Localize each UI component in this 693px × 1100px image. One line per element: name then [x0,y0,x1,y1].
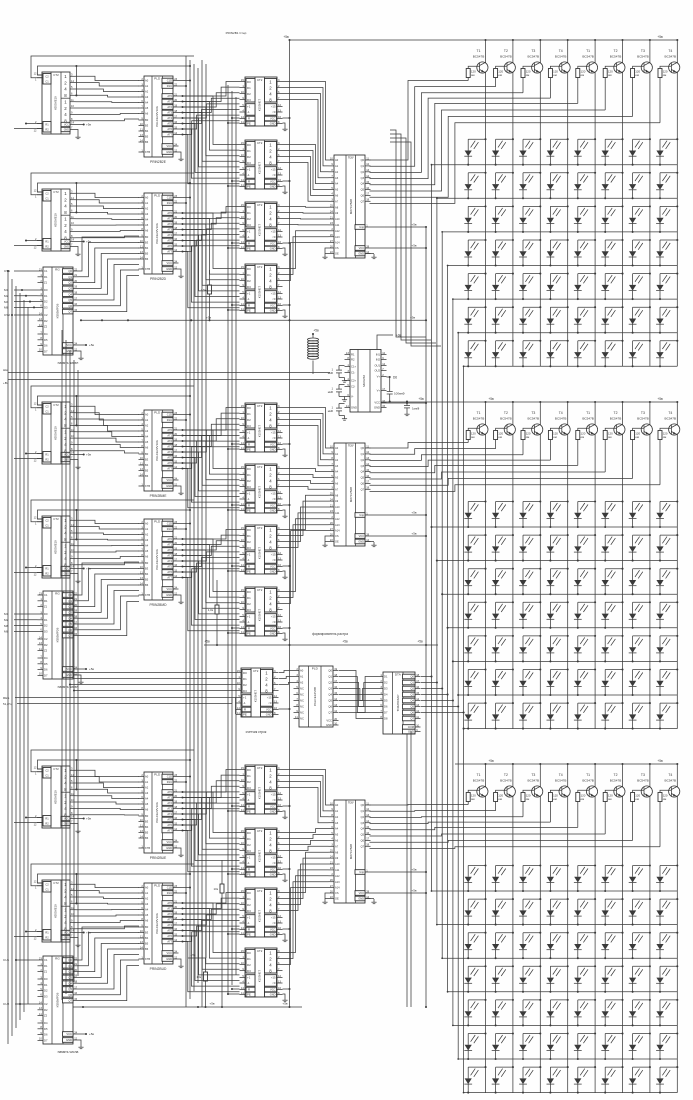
svg-text:A3: A3 [145,902,149,906]
LED D2.2.4 [547,534,569,562]
transistor T3 block 2 (BC547B) [523,411,543,435]
svg-text:A1: A1 [145,84,149,88]
wire R2 A1 [14,128,43,130]
svg-text:+5в: +5в [411,867,417,871]
transistor T1 block 3 (BC547B) [468,773,488,797]
svg-text:TD62803AP: TD62803AP [396,695,400,712]
svg-text:GND: GND [270,933,276,937]
LED D1.5.1 [464,273,486,301]
wire PAL B3 R1U [179,419,188,421]
svg-text:К155ИЕ7: К155ИЕ7 [258,486,262,499]
resistor 120 Ohm base T6 block 1 [603,69,613,111]
svg-text:Z1: Z1 [44,605,48,609]
LED D2.3.2 [492,568,514,596]
svg-text:T3: T3 [531,411,535,415]
svg-text:R1: R1 [45,816,49,820]
svg-text:D6: D6 [384,705,388,709]
svg-text:VCC: VCC [167,478,173,482]
LED D2.5.2 [492,635,514,663]
svg-text:A2: A2 [145,424,149,428]
svg-text:13: 13 [39,1006,42,1010]
svg-text:R: R [248,868,250,872]
+5V rail block 3 [455,763,677,765]
svg-text:A5: A5 [145,223,149,227]
wire left bus v4 [19,293,21,1020]
svg-text:D3: D3 [44,995,48,999]
svg-text:10: 10 [241,600,244,604]
wire ULN Q6 to row bus 6 [421,705,459,707]
svg-text:Z2: Z2 [44,1014,48,1018]
svg-text:+1: +1 [247,492,251,496]
wire EPROM2 Q6 to T3 base [370,478,633,485]
svg-text:PE: PE [247,933,251,937]
transistor T4 block 1 (BC547B) [550,49,570,73]
wire loop pair 3 b [31,386,194,408]
svg-text:-1: -1 [243,701,246,705]
svg-text:Ши: Ши [3,368,8,372]
svg-text:R: R [248,928,250,932]
svg-text:+5в: +5в [89,1032,94,1036]
wire LED row 1 block 3 [432,890,678,892]
EPROM D1 M27C256B [329,155,371,258]
wire column 5 block 2 [594,401,596,729]
svg-text:R: R [248,443,250,447]
LED D2.6.7 [629,668,651,696]
svg-text:ом: ом [526,73,530,77]
wire left bus v6 [27,307,29,1004]
svg-text:АГ4: АГ4 [167,116,172,120]
svg-text:A0: A0 [145,522,149,526]
capacitor C1 1uF [328,366,347,383]
svg-text:формирователь растра: формирователь растра [312,632,348,636]
row counter U31 K155IE7 [236,668,279,717]
svg-text:D4: D4 [44,656,48,660]
svg-text:D2: D2 [243,683,247,687]
svg-text:10: 10 [140,122,143,126]
LED D1.4.4 [547,239,569,267]
ground memory 2 [78,675,83,684]
svg-text:К155ИЕ7: К155ИЕ7 [258,910,262,923]
svg-text:27: 27 [330,884,333,888]
svg-text:+5в: +5в [206,316,212,320]
svg-text:+5в: +5в [657,35,663,39]
svg-text:KTB: KTB [145,150,150,154]
LED D2.5.7 [629,635,651,663]
svg-text:АГ6: АГ6 [167,823,172,827]
LED D1.3.5 [574,205,596,233]
LED D1.4.6 [601,239,623,267]
svg-text:ом: ом [526,797,530,801]
svg-text:+5в: +5в [411,531,417,535]
svg-text:NC: NC [300,705,304,709]
LED D3.2.3 [519,898,541,926]
svg-text:Q4: Q4 [361,182,365,186]
svg-text:АГ7: АГ7 [167,576,172,580]
wire column 5 block 3 [594,763,596,1093]
input CU2 [3,1002,38,1006]
LED D1.4.2 [492,239,514,267]
LED D2.2.5 [574,534,596,562]
svg-text:B6: B6 [145,474,149,478]
wire PAL B3 C1D [179,413,192,415]
resistor 120 Ohm base T6 block 2 [603,431,613,473]
svg-text:Q0: Q0 [361,803,365,807]
svg-text:10: 10 [241,90,244,94]
svg-text:Q3: Q3 [68,976,72,980]
transistor T2 block 1 (BC547B) [605,49,625,73]
svg-text:T3: T3 [531,773,535,777]
svg-text:NC: NC [300,693,304,697]
wire row-select bus 5 [452,298,454,1026]
svg-text:PLD: PLD [154,773,161,777]
svg-text:B0: B0 [145,235,149,239]
svg-text:VCC: VCC [64,568,69,571]
counter U41 K155IE7 [240,765,283,814]
wire mid-left bus v1 [61,330,63,1000]
svg-text:D8: D8 [384,717,388,721]
svg-text:>15: >15 [271,615,276,619]
svg-text:15: 15 [241,203,244,207]
svg-text:PLD: PLD [154,77,161,81]
counter A3 K555IE19 [34,401,76,464]
svg-text:C2+: C2+ [351,379,356,383]
wire ULN Q4 to row bus 4 [421,693,449,695]
LED D2.1.2 [492,500,514,528]
svg-text:14: 14 [241,240,244,244]
svg-text:A1: A1 [300,675,304,679]
svg-text:PE: PE [247,448,251,452]
svg-text:-1: -1 [247,235,250,239]
svg-text:-1: -1 [247,497,250,501]
svg-text:A4: A4 [145,797,149,801]
svg-text:GND: GND [166,957,172,961]
wire column 2 block 2 [512,401,514,729]
svg-text:10: 10 [39,1037,42,1041]
ground U21 [282,449,287,457]
svg-text:15: 15 [241,949,244,953]
LED D3.2.1 [464,898,486,926]
svg-text:OE: OE [335,540,339,544]
LED D2.6.8 [656,668,678,696]
wire net v3 EPROM1 right [390,138,436,343]
LED D3.6.8 [656,1032,678,1060]
svg-text:A3: A3 [145,791,149,795]
svg-text:ом: ом [498,73,502,77]
resistor 120 Ohm base T5 block 1 [576,69,586,104]
LED D1.4.8 [656,239,678,267]
svg-text:T3: T3 [641,773,645,777]
LED D1.6.6 [601,306,623,334]
svg-text:26: 26 [330,521,333,525]
svg-text:BC547B: BC547B [637,54,649,58]
input M2 [4,294,38,298]
svg-text:АГ2: АГ2 [167,439,172,443]
svg-text:C1+: C1+ [351,365,356,369]
svg-text:D5: D5 [44,662,48,666]
svg-text:OE: OE [335,897,339,901]
input M2 mem2 [4,618,38,622]
svg-text:51,2Гц: 51,2Гц [3,702,12,706]
wire loop pair 6 a [38,873,192,905]
wire ULN GND down [410,732,412,1008]
counter U44 K155IE7 [240,948,283,997]
input M1 mem2 [4,612,38,616]
label PRIN2B1 Ster [226,31,247,35]
svg-text:VCC: VCC [326,719,332,723]
counter A4 K555IE19 [34,515,76,578]
wire LED row 3 block 2 [442,593,677,595]
svg-text:Q1: Q1 [361,809,365,813]
svg-text:B3: B3 [145,567,149,571]
ground PAL B3 [178,486,183,495]
svg-text:A2: A2 [145,207,149,211]
svg-text:10: 10 [241,901,244,905]
svg-text:ом: ом [471,435,475,439]
svg-text:память чисел: память чисел [58,361,79,365]
svg-text:АГ2: АГ2 [167,801,172,805]
LED D1.7.4 [547,340,569,368]
svg-text:10: 10 [140,456,143,460]
svg-text:C1D: C1D [167,775,172,779]
svg-text:R1: R1 [45,452,49,456]
label memory 3 [58,1050,79,1054]
svg-text:A1: A1 [145,780,149,784]
svg-text:VCC: VCC [270,565,276,569]
LED D2.1.5 [574,500,596,528]
LED D1.6.3 [519,306,541,334]
ground U23 [282,571,287,579]
wire PAL16V8 Q5 to ULN D3 [339,689,378,701]
wire bus Sh [3,368,330,373]
LED D1.2.1 [464,172,486,200]
LED D3.6.4 [547,1032,569,1060]
wire R net [231,180,240,182]
svg-text:14: 14 [241,441,244,445]
svg-text:GND: GND [358,540,364,544]
svg-text:D2: D2 [247,92,251,96]
svg-text:Q1: Q1 [328,675,332,679]
LED D2.7.8 [656,702,678,730]
wire EPROM 2 Upr +5v [371,510,428,516]
svg-text:Q3: Q3 [361,464,365,468]
ground counter A3 [75,460,80,469]
svg-text:+5в: +5в [204,640,210,644]
svg-text:Q3: Q3 [410,693,414,697]
svg-text:B6: B6 [145,583,149,587]
svg-text:RG: RG [55,268,60,272]
LED D3.4.1 [464,965,486,993]
counter A2 K555IE19 [34,188,76,251]
resistor R12 10k [188,953,208,1008]
svg-text:T3: T3 [641,49,645,53]
svg-text:ом: ом [498,435,502,439]
LED D1.7.2 [492,340,514,368]
svg-text:BC547B: BC547B [610,778,622,782]
svg-text:К555ИР26: К555ИР26 [56,303,60,318]
wire LED row 5 block 1 [453,298,677,300]
svg-text:К555ИЕ19: К555ИЕ19 [54,790,58,804]
svg-text:A10: A10 [335,505,340,509]
svg-text:CS2: CS2 [4,313,10,317]
svg-text:A14: A14 [335,241,340,245]
wire PE net [227,448,240,450]
svg-text:ПЗУ: ПЗУ [348,444,354,448]
transistor T4 block 3 (BC547B) [550,773,570,797]
LED D3.1.1 [464,864,486,892]
svg-text:>15: >15 [271,856,276,860]
svg-text:23: 23 [330,221,333,225]
svg-text:10: 10 [241,215,244,219]
transistor T3 block 2 (BC547B) [633,411,653,435]
wire loop pair 4 b [31,500,194,522]
svg-text:GND: GND [270,570,276,574]
wire row counter to PAL16V8 [279,671,294,685]
svg-text:A11: A11 [335,868,340,872]
svg-text:CS: CS [335,246,339,250]
counter U13 K155IE7 [240,202,283,251]
wire ULN Q1 to row bus 1 [421,675,433,677]
svg-text:ом: ом [608,73,612,77]
svg-text:GND: GND [64,937,70,940]
svg-text:23: 23 [330,509,333,513]
svg-text:CU1: CU1 [3,958,9,962]
svg-text:Q0: Q0 [361,446,365,450]
svg-text:D3: D3 [247,424,251,428]
svg-text:Q0: Q0 [68,593,72,597]
wire LED row 7 block 1 [464,365,678,367]
wire PAL16V8 Q6 to ULN D2 [339,683,378,707]
LED D1.3.6 [601,205,623,233]
LED D1.6.8 [656,306,678,334]
wire mid-left bus v5 [77,370,79,976]
svg-text:CT2: CT2 [53,190,59,194]
LED D1.5.3 [519,273,541,301]
svg-text:14: 14 [39,1000,42,1004]
resistor 120 Ohm base T2 block 1 [494,69,504,87]
wire ie7 bus v3 [235,97,237,975]
LED D1.5.2 [492,273,514,301]
svg-text:К155ИЕ7: К155ИЕ7 [258,609,262,622]
svg-text:A10: A10 [335,862,340,866]
svg-text:<0: <0 [272,861,276,865]
svg-text:A3: A3 [145,538,149,542]
svg-text:<0: <0 [272,173,276,177]
svg-text:+5в: +5в [342,640,348,644]
resistor 120 Ohm base T8 block 3 [658,793,668,847]
LED D3.4.5 [574,965,596,993]
svg-text:RES: RES [3,696,9,700]
svg-text:D1: D1 [247,534,251,538]
svg-text:B4: B4 [145,825,149,829]
+5v label choke [313,329,319,333]
svg-text:>15: >15 [271,105,276,109]
svg-text:К155ИЕ7: К155ИЕ7 [258,970,262,983]
svg-text:>15: >15 [271,431,276,435]
LED D1.3.2 [492,205,514,233]
wire R1 A5 [25,816,43,818]
wire input 51.2Hz [3,699,232,707]
resistor 120 Ohm base T5 block 3 [576,793,586,828]
svg-text:PRIN2BMD: PRIN2BMD [149,603,167,607]
ground PAL B1 [178,152,183,161]
svg-text:D0: D0 [44,612,48,616]
svg-text:T2: T2 [504,411,508,415]
svg-text:D2: D2 [44,989,48,993]
+5v label counter A6 [76,931,92,935]
wire row-select bus 2 [436,197,438,925]
svg-text:CT2: CT2 [257,203,263,207]
svg-text:Q6: Q6 [68,628,72,632]
LED D1.1.6 [601,138,623,166]
+5v rail middle [204,640,438,647]
PAL B2 PALCE22V10 PRIN2B2D [139,193,179,281]
wire bus PAL B6 outputs b [181,902,239,992]
svg-text:D1: D1 [247,774,251,778]
LED D3.4.7 [629,965,651,993]
resistor 120 Ohm base T8 block 1 [658,69,668,123]
svg-text:D3: D3 [247,285,251,289]
svg-text:Q4: Q4 [68,292,72,296]
svg-text:-1: -1 [247,620,250,624]
svg-text:VCC: VCC [374,401,380,405]
counter A6 K555IE19 [34,879,76,942]
svg-text:R2: R2 [45,572,49,576]
ground U24 [282,633,287,641]
input CU1 [3,958,38,962]
svg-text:14: 14 [140,581,143,585]
svg-text:C1: C1 [45,197,49,201]
+5V label right block 2 [657,397,663,401]
wire PE net [227,309,240,311]
transistor T2 block 1 (BC547B) [496,49,516,73]
svg-text:13: 13 [39,641,42,645]
svg-text:C1D: C1D [167,886,172,890]
svg-text:D1: D1 [44,983,48,987]
capacitor C3 1uF [328,404,347,421]
svg-text:>15: >15 [271,553,276,557]
svg-text:Q0: Q0 [328,669,332,673]
wire PAL B4 R1U [179,528,188,530]
wire bus PAL B3 outputs a [179,408,240,469]
svg-text:D1: D1 [243,677,247,681]
LED D2.1.4 [547,500,569,528]
svg-text:<0: <0 [272,921,276,925]
svg-text:21: 21 [330,860,333,864]
svg-text:13: 13 [140,467,143,471]
LED D2.5.6 [601,635,623,663]
svg-text:ом: ом [581,435,585,439]
LED D1.6.4 [547,306,569,334]
svg-text:A5: A5 [145,549,149,553]
svg-text:R2: R2 [44,1008,48,1012]
svg-text:C2: C2 [45,882,49,886]
+5v label counter A5 [76,817,92,821]
LED D2.7.6 [601,702,623,730]
svg-text:10к: 10к [214,887,219,891]
svg-text:A14: A14 [335,886,340,890]
svg-text:ом: ом [581,797,585,801]
svg-text:+5в: +5в [86,817,91,821]
svg-text:A3: A3 [145,212,149,216]
wire bus PAL B1 outputs a [179,82,240,135]
svg-text:М27С256В: М27С256В [349,844,353,859]
wire VCC U23 [283,565,291,567]
svg-text:A0: A0 [145,413,149,417]
svg-text:BC547B: BC547B [637,416,649,420]
svg-text:D3: D3 [247,849,251,853]
wire R1 A6 [25,930,43,932]
svg-text:R1U: R1U [167,780,172,784]
